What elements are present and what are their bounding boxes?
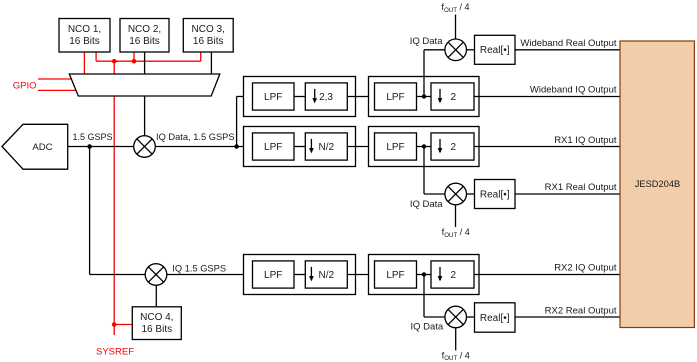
svg-text:IQ Data: IQ Data bbox=[410, 321, 443, 332]
svg-text:IQ Data: IQ Data bbox=[410, 36, 443, 47]
svg-text:SYSREF: SYSREF bbox=[96, 347, 134, 358]
svg-text:16 Bits: 16 Bits bbox=[69, 36, 100, 47]
svg-text:IQ 1.5 GSPS: IQ 1.5 GSPS bbox=[172, 264, 226, 274]
svg-text:IQ Data: IQ Data bbox=[410, 199, 443, 210]
svg-text:NCO 4,: NCO 4, bbox=[140, 312, 173, 323]
svg-text:1.5 GSPS: 1.5 GSPS bbox=[73, 132, 113, 142]
svg-text:JESD204B: JESD204B bbox=[635, 179, 680, 189]
svg-text:ADC: ADC bbox=[32, 142, 52, 153]
svg-text:2: 2 bbox=[451, 92, 457, 103]
svg-text:RX2 Real Output: RX2 Real Output bbox=[545, 306, 617, 317]
svg-text:LPF: LPF bbox=[264, 92, 282, 103]
svg-text:LPF: LPF bbox=[264, 142, 282, 153]
svg-text:LPF: LPF bbox=[386, 142, 404, 153]
svg-text:Real[•]: Real[•] bbox=[480, 313, 510, 324]
svg-text:GPIO: GPIO bbox=[13, 80, 37, 91]
svg-text:RX1 Real Output: RX1 Real Output bbox=[545, 182, 617, 193]
svg-text:Wideband IQ Output: Wideband IQ Output bbox=[530, 85, 617, 96]
svg-text:2: 2 bbox=[451, 142, 457, 153]
svg-text:N/2: N/2 bbox=[319, 142, 335, 153]
svg-text:16 Bits: 16 Bits bbox=[129, 36, 160, 47]
svg-text:IQ Data, 1.5 GSPS: IQ Data, 1.5 GSPS bbox=[156, 132, 235, 142]
svg-text:16 Bits: 16 Bits bbox=[142, 324, 173, 335]
svg-text:2: 2 bbox=[451, 270, 457, 281]
svg-text:RX1 IQ Output: RX1 IQ Output bbox=[554, 135, 617, 146]
svg-text:Real[•]: Real[•] bbox=[480, 190, 510, 201]
svg-text:Real[•]: Real[•] bbox=[480, 45, 510, 56]
svg-text:NCO 3,: NCO 3, bbox=[192, 24, 225, 35]
svg-text:2,3: 2,3 bbox=[319, 92, 333, 103]
svg-text:RX2 IQ Output: RX2 IQ Output bbox=[554, 263, 617, 274]
svg-text:LPF: LPF bbox=[386, 270, 404, 281]
svg-text:NCO 1,: NCO 1, bbox=[68, 24, 101, 35]
svg-text:Wideband Real Output: Wideband Real Output bbox=[520, 38, 616, 49]
svg-text:16 Bits: 16 Bits bbox=[193, 36, 224, 47]
svg-text:LPF: LPF bbox=[264, 270, 282, 281]
svg-text:NCO 2,: NCO 2, bbox=[128, 24, 161, 35]
svg-text:N/2: N/2 bbox=[319, 270, 335, 281]
svg-text:LPF: LPF bbox=[386, 92, 404, 103]
